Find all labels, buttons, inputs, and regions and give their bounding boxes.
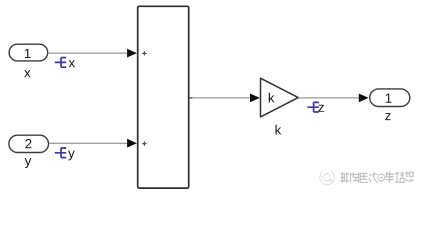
watermark logo (faint circle with squiggle)	[320, 171, 335, 185]
wire from In2 to Add	[49, 142, 129, 144]
glyph 5	[385, 171, 394, 183]
signal badge z	[307, 102, 323, 112]
glyph 1	[341, 172, 350, 182]
label y (inport name)	[25, 158, 32, 168]
label x (inport name)	[24, 70, 30, 77]
plus sign for port 1	[142, 51, 146, 55]
wire from In1 to Add	[48, 52, 129, 54]
wire from Add to Gain	[189, 97, 252, 99]
glyph 6	[395, 171, 404, 182]
signal badge y	[55, 148, 75, 160]
plus sign for port 2	[142, 141, 146, 145]
glyph 7	[405, 171, 414, 181]
glyph 3	[360, 173, 369, 182]
arrowhead into Add top input	[127, 49, 137, 58]
port tick at Add output	[189, 97, 192, 99]
outport block Out1 (z)	[370, 89, 410, 107]
wire from Gain to Out1	[298, 97, 361, 99]
glyph 4	[369, 172, 378, 182]
arrowhead into Add bottom input	[127, 139, 137, 148]
gain block k (triangle)	[261, 78, 299, 117]
sum block Add	[138, 6, 189, 188]
signal badge x (must-resolve icon + name)	[55, 58, 75, 68]
watermark text (faint stylized glyph strokes)	[341, 171, 414, 183]
arrowhead into Gain	[250, 94, 260, 103]
glyph 2	[351, 172, 359, 182]
label k (gain name)	[275, 125, 281, 135]
arrowhead into Out1	[359, 94, 369, 103]
label z (outport name)	[385, 113, 390, 120]
small circle glyph	[378, 174, 385, 181]
inport block In2 (y)	[9, 135, 49, 152]
inport block In1 (x)	[9, 44, 48, 61]
